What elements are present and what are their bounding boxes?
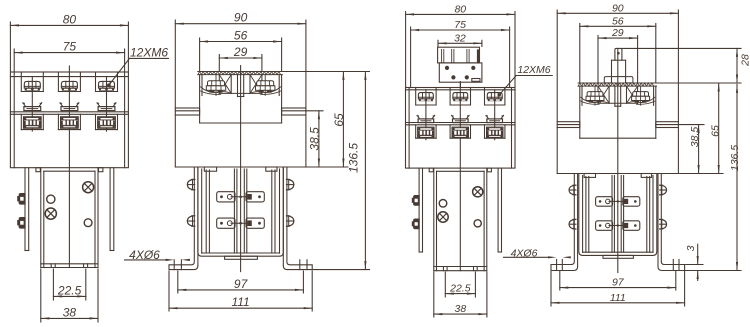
auxiliary contact block: upper prong section [438, 47, 480, 63]
dimension 28 view 4 [736, 48, 750, 83]
coil spade terminal row 2 left [596, 221, 613, 231]
arc chute centre window [219, 75, 262, 97]
side terminal screw left [206, 81, 225, 93]
guide tab below body right [641, 174, 651, 178]
wire clamp 2 [60, 103, 79, 111]
svg-text:65: 65 [332, 113, 346, 127]
svg-text:75: 75 [454, 19, 466, 31]
mounting bracket plate right [283, 167, 287, 265]
extension line plunger top view 4 [622, 47, 741, 49]
bracket foot right [283, 262, 312, 270]
mounting bracket plate left [574, 174, 577, 267]
side view: upper arc chamber block [200, 75, 282, 123]
svg-text:80: 80 [63, 12, 77, 26]
small stop tab below housing left [429, 168, 433, 172]
svg-text:97: 97 [612, 277, 625, 289]
upper terminal cell 1 [416, 88, 436, 106]
view 1: front view of contactor [0, 0, 1, 1]
auxiliary block centre stem [459, 82, 461, 87]
coil spade terminal row 1 left [596, 197, 613, 207]
svg-text:136.5: 136.5 [729, 145, 741, 171]
latch hook lower [412, 219, 419, 229]
guide tab below body left [584, 174, 595, 178]
mounting bracket plate right [658, 174, 661, 267]
side view: main housing body [175, 115, 306, 167]
svg-text:90: 90 [234, 11, 248, 25]
dimension 111 extension lines view 2 [169, 271, 312, 311]
auxiliary block rivet 3 [451, 75, 455, 79]
dimension 136.5 view 4 [729, 84, 741, 270]
coil bobbin flange left [206, 170, 209, 253]
small stop tab below housing right [99, 168, 103, 172]
auxiliary block corner notch [472, 79, 480, 82]
svg-text:75: 75 [63, 40, 77, 54]
dimension 56 view 2 [200, 29, 282, 43]
terminal cover flange right [282, 108, 306, 115]
svg-text:56: 56 [234, 29, 248, 43]
rear legs right [110, 168, 114, 251]
svg-text:32: 32 [454, 32, 466, 44]
side terminal screw right [632, 92, 650, 103]
centre axis line [459, 82, 461, 271]
svg-text:38.5: 38.5 [307, 127, 321, 151]
dimension 90 view 4 [557, 2, 678, 14]
dimension 80 extension lines view 3 [406, 12, 515, 87]
guide tab below body left [204, 167, 216, 171]
upper terminal screw 2 [61, 81, 77, 90]
coil bobbin flange right [647, 177, 650, 253]
terminal cover flange left [557, 122, 580, 128]
auxiliary block prong 1 [442, 49, 444, 63]
lower terminal screw 1 [418, 127, 434, 138]
svg-text:12XM6: 12XM6 [517, 64, 550, 76]
coil spade terminal row 2 right [246, 218, 264, 228]
svg-text:38: 38 [455, 303, 467, 315]
armature centre lines [234, 169, 246, 253]
arc chute centre window [598, 86, 638, 106]
svg-text:65: 65 [709, 125, 721, 137]
coil rivet cross circle left [438, 212, 448, 222]
arc chute cross bracing left [598, 86, 609, 103]
upper terminal cell 2 [450, 88, 470, 106]
pilot hole left-top [439, 200, 447, 208]
dimension 75 view 3 [411, 19, 510, 31]
coil rivet cross circle right-top [473, 187, 483, 197]
dimension 38.5 view 4 [689, 125, 701, 174]
coil spade terminal row 1 left [217, 192, 235, 202]
frame bolt left bottom [187, 216, 194, 226]
arc runner curve right [250, 87, 281, 95]
arc chute cross bracing left [219, 75, 231, 94]
coil terminal centre pin row 2 [609, 224, 627, 226]
dimension 65 view 2 [332, 72, 346, 168]
extension line hatch top right view 4 [657, 82, 742, 84]
lower terminal screw 3 [487, 127, 503, 138]
dimension 38 view 3 [434, 303, 487, 315]
dimension 38.5 view 2 [307, 111, 321, 167]
contactor front: middle band [406, 123, 516, 125]
wire clamp 1 [23, 103, 42, 111]
dimension 97 view 4 [560, 277, 676, 289]
svg-text:56: 56 [612, 15, 624, 27]
auxiliary block prong 4 (filled) [477, 49, 480, 63]
auxiliary block main body [439, 63, 482, 82]
frame bolt right bottom [287, 216, 294, 226]
pilot hole right-bottom [84, 219, 92, 227]
upper terminal cell 1 [21, 72, 43, 92]
frame bolt right top [660, 185, 667, 195]
auxiliary block rivet 1 [445, 66, 449, 70]
small stop tab below housing left [36, 168, 40, 172]
rear legs right [498, 168, 501, 252]
magnet frame outline [198, 168, 283, 257]
upper terminal screw 3 [99, 81, 115, 90]
auxiliary block prong 2 [452, 49, 454, 63]
wire clamp 1 [417, 115, 435, 122]
extension line top right view 2 [282, 71, 370, 73]
coil terminal centre pin row 1 [231, 196, 250, 199]
coil spade terminal row 2 left [217, 218, 235, 228]
label 12XM6 view 3 [498, 64, 553, 97]
frame bolt left bottom [569, 219, 576, 229]
arc runner curve left [201, 87, 232, 95]
dimension 80 view 3 [406, 3, 515, 15]
label 4X dia 6 view 2 [125, 248, 190, 262]
svg-text:90: 90 [612, 2, 624, 14]
dimension 38 extension lines view 3 [434, 272, 487, 317]
mounting slot ticks on narrow body foot [51, 264, 87, 268]
svg-text:3: 3 [685, 245, 697, 251]
coil terminal centre pin row 2 [231, 222, 250, 225]
dimension 29 view 2 [219, 45, 262, 59]
dimension 80 view 1 [10, 12, 128, 26]
wire clamp 3 [97, 103, 116, 111]
lower terminal cell 1 [416, 125, 436, 138]
coil spade terminal row 2 right [623, 221, 640, 231]
side view: upper arc chamber block [580, 86, 656, 138]
dimension 32 extension lines view 3 [438, 40, 482, 46]
upper terminal cell 3 [96, 72, 118, 92]
centre axis line [617, 48, 619, 272]
view 4: side view with top plunger [0, 0, 1, 1]
lower terminal screw 1 [24, 117, 42, 128]
magnet frame outline [579, 174, 657, 255]
svg-text:28: 28 [739, 54, 750, 67]
dimension 56 extension lines view 2 [200, 38, 282, 71]
side terminal screw axis right [640, 86, 642, 105]
dimension 22.5 view 3 [445, 283, 475, 295]
coil spade terminal row 1 right [623, 197, 640, 207]
dimension 22.5 extension lines view 3 [445, 272, 475, 297]
contactor front: middle band [10, 112, 128, 115]
coil bottom ledge [603, 255, 633, 258]
coil bobbin flange left [586, 177, 589, 253]
svg-text:29: 29 [611, 27, 624, 39]
svg-text:80: 80 [454, 3, 466, 15]
svg-text:97: 97 [234, 277, 249, 291]
dimension 22.5 view 1 [53, 283, 85, 297]
coil rivet cross circle right-top [83, 182, 94, 193]
plunger ear right [626, 77, 633, 83]
side terminal screw right [256, 81, 275, 93]
dimension 111 view 2 [169, 295, 312, 309]
terminal column axis 1 [31, 77, 33, 132]
dimension 3 extension lines view 4 [686, 265, 703, 271]
auxiliary block rivet 2 [471, 66, 475, 70]
extension line tab right view 4 [678, 124, 704, 126]
dimension 65 view 4 [709, 83, 721, 174]
side view: hatched arc-chute top strip [198, 72, 282, 75]
svg-text:111: 111 [610, 292, 626, 304]
lower terminal cell 3 [485, 125, 505, 138]
lower housing: narrow body [434, 168, 487, 271]
dimension 97 extension lines view 4 [560, 272, 676, 291]
svg-text:38.5: 38.5 [689, 127, 701, 148]
lower terminal cell 1 [21, 114, 43, 129]
svg-text:22.5: 22.5 [57, 283, 82, 297]
svg-text:111: 111 [231, 295, 249, 309]
arc chute cross bracing right [627, 86, 638, 103]
frame bolt left top [569, 185, 576, 195]
view 2: side view of contactor [0, 0, 1, 1]
dimension 136.5 view 2 [347, 72, 367, 270]
dimension 38 extension lines view 1 [41, 269, 98, 322]
latch hook upper [18, 194, 25, 205]
mounting bracket plate left [194, 167, 198, 265]
coil bobbin flange right [272, 170, 275, 253]
plunger ear left [604, 77, 611, 83]
rear legs left [419, 168, 422, 252]
dimension 75 view 1 [14, 40, 124, 54]
armature centre lines [612, 176, 624, 253]
svg-text:29: 29 [233, 45, 248, 59]
small stop tab below housing right [487, 168, 491, 172]
dimension 111 view 4 [551, 292, 685, 304]
dimension 97 view 2 [178, 277, 304, 291]
pilot hole right-bottom [474, 220, 481, 227]
bracket foot right [658, 262, 685, 271]
guide tab below body right [266, 167, 277, 171]
dimension 3 view 4 [685, 244, 699, 280]
extension line body bottom right view 2 [306, 166, 348, 168]
lower housing: narrow body [41, 168, 98, 268]
upper terminal cell 3 [485, 88, 505, 106]
lower terminal cell 2 [450, 125, 470, 138]
bracket foot left [551, 262, 578, 271]
upper terminal screw 1 [24, 81, 40, 90]
side terminal screw axis left [594, 86, 596, 105]
dimension 80 extension lines view 1 [10, 22, 128, 71]
dimension 97 extension lines view 2 [178, 271, 304, 293]
wire clamp 3 [486, 115, 504, 122]
dimension 29 view 4 [598, 27, 638, 39]
coil bottom ledge [225, 256, 258, 259]
auxiliary block prong 3 [467, 49, 469, 63]
extension line foot bottom right view 4 [685, 270, 741, 272]
extension line body bottom right view 4 [678, 173, 723, 175]
pilot hole left-top [47, 195, 55, 203]
svg-text:22.5: 22.5 [449, 283, 471, 295]
coil rivet cross circle left [45, 208, 56, 219]
centre axis line [240, 66, 242, 272]
lower terminal cell 2 [58, 114, 80, 129]
svg-text:38: 38 [63, 305, 77, 319]
side terminal screw axis right [264, 75, 266, 96]
side view: hatched arc-chute top strip [578, 83, 656, 86]
terminal cover flange left [175, 108, 199, 115]
arc runner curve right [627, 97, 655, 104]
terminal column axis 3 [494, 90, 496, 140]
lower terminal screw 2 [61, 117, 79, 128]
extension line tab right view 2 [306, 110, 323, 112]
dimension 90 view 2 [175, 11, 306, 25]
dimension 56 view 4 [580, 15, 656, 27]
auxiliary block rivet 4 [465, 75, 469, 79]
dimension 29 extension lines view 2 [219, 55, 262, 71]
coil terminal centre pin row 1 [609, 200, 627, 202]
foot slot right [300, 260, 307, 270]
foot slot left [557, 260, 563, 271]
lower terminal screw 3 [98, 117, 116, 128]
upper terminal screw 3 [487, 93, 502, 102]
side terminal screw left [586, 92, 604, 103]
view 3: front view with auxiliary contact block [0, 0, 1, 1]
rear legs left [25, 168, 29, 251]
contactor front: main housing outline [406, 88, 516, 169]
centre axis line [68, 66, 70, 268]
dimension 38 view 1 [41, 305, 98, 319]
dimension 32 view 3 [438, 32, 482, 44]
terminal column axis 1 [425, 90, 427, 140]
terminal column axis 3 [106, 77, 108, 132]
side view: main housing body [557, 128, 678, 174]
extension line foot bottom right view 2 [312, 269, 369, 271]
terminal cover flange right [656, 122, 679, 128]
foot slot right [673, 260, 679, 271]
label 4X dia 6 view 4 [504, 247, 571, 259]
plunger pin [615, 48, 622, 60]
dimension 75 extension lines view 1 [14, 49, 124, 71]
coil spade terminal row 1 right [246, 192, 264, 202]
frame bolt right top [287, 179, 294, 189]
label 12XM6 view 1 [107, 46, 169, 87]
dimension 29 extension lines view 4 [598, 36, 638, 83]
bracket foot left [169, 262, 198, 270]
dimension 56 extension lines view 4 [580, 24, 656, 83]
lower terminal screw 2 [452, 127, 468, 138]
latch hook lower [18, 218, 25, 229]
frame bolt left top [187, 179, 194, 189]
upper terminal screw 2 [453, 93, 468, 102]
svg-text:12XM6: 12XM6 [130, 46, 168, 60]
dimension 90 extension lines view 2 [175, 20, 306, 108]
frame bolt right bottom [660, 219, 667, 229]
latch hook upper [412, 196, 419, 206]
side terminal screw axis left [215, 75, 217, 96]
dimension 75 extension lines view 3 [411, 27, 510, 87]
plunger body [612, 60, 626, 83]
dimension 90 extension lines view 4 [557, 10, 678, 122]
dimension 22.5 extension lines view 1 [53, 269, 85, 300]
wire clamp 2 [452, 115, 469, 122]
arc chute cross bracing right [250, 75, 262, 94]
foot slot left [174, 260, 181, 270]
mounting slot ticks on narrow body foot [443, 267, 477, 271]
dimension 111 extension lines view 4 [551, 272, 685, 307]
lower terminal cell 3 [96, 114, 118, 129]
contactor front: main housing outline [10, 72, 128, 168]
svg-text:136.5: 136.5 [347, 143, 361, 173]
upper terminal screw 1 [418, 93, 433, 102]
upper terminal cell 2 [58, 72, 80, 92]
arc runner curve left [581, 97, 609, 104]
